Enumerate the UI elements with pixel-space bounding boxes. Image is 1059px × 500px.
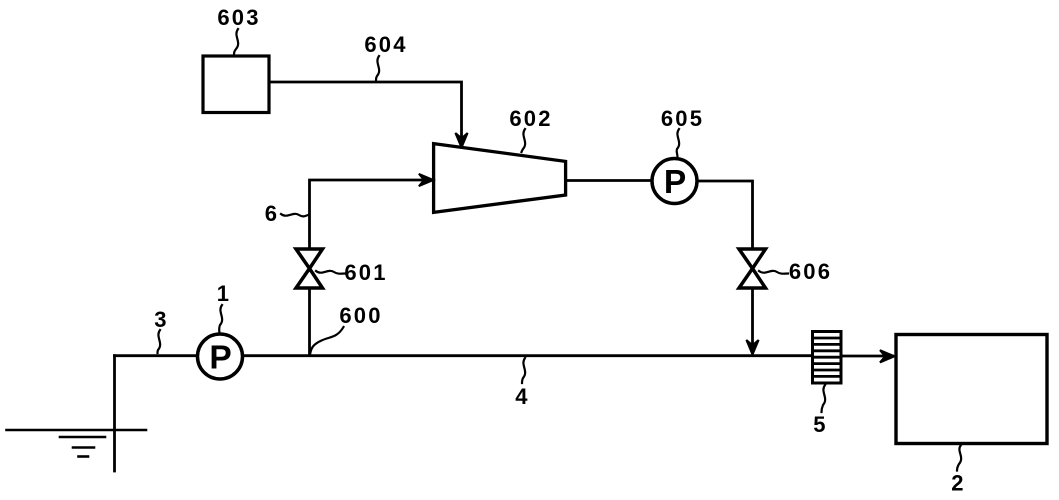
svg-text:602: 602: [509, 106, 552, 131]
leader for 3: [158, 330, 161, 353]
leader for 600: [310, 327, 343, 354]
svg-text:2: 2: [951, 471, 965, 496]
leader for 606: [759, 271, 788, 274]
svg-text:601: 601: [344, 260, 387, 285]
wire gauge 605 to valve 606: [697, 181, 753, 249]
box 603: [203, 56, 269, 113]
valve 601: [296, 249, 323, 288]
svg-text:3: 3: [154, 307, 168, 332]
intake riser (left vertical pipe): [113, 356, 116, 471]
wire 6 (from node 600 up through valve 601 to compressor inlet): [308, 288, 311, 354]
valve 606: [739, 249, 766, 288]
svg-text:606: 606: [789, 259, 832, 284]
wire 604: [269, 82, 462, 146]
filter 5: [813, 332, 842, 384]
svg-text:P: P: [664, 164, 686, 201]
svg-text:603: 603: [217, 5, 260, 30]
svg-text:604: 604: [364, 32, 407, 57]
leader for 605: [677, 129, 679, 157]
wire compressor 602 to gauge 605: [566, 179, 652, 182]
box 2: [896, 335, 1047, 444]
arrowhead main pipe into box 2: [880, 350, 895, 362]
pressure gauge P 605: [652, 159, 697, 204]
main pipe 4: [115, 354, 814, 357]
arrowhead 606 wire into main pipe: [746, 340, 758, 355]
leader for 604: [376, 56, 379, 80]
svg-text:605: 605: [661, 106, 704, 131]
svg-text:P: P: [209, 340, 231, 377]
arrowhead 604 into compressor top: [455, 133, 467, 148]
leader for 4: [522, 358, 525, 383]
arrowhead wire 6 into compressor left: [419, 174, 434, 186]
svg-text:5: 5: [813, 412, 827, 437]
wire valve 606 down to main pipe: [751, 288, 754, 352]
svg-text:600: 600: [339, 303, 382, 328]
leader for 601: [316, 271, 345, 274]
leader for 5: [822, 385, 826, 412]
water surface symbol: [7, 430, 147, 457]
leader for 6: [281, 214, 308, 217]
svg-text:4: 4: [515, 384, 529, 409]
pressure gauge P (1): [198, 334, 243, 379]
leader for 1: [219, 305, 222, 333]
svg-text:1: 1: [217, 281, 231, 306]
leader for 602: [522, 129, 526, 152]
leader for 603: [234, 29, 238, 55]
compressor 602: [434, 144, 566, 213]
svg-text:6: 6: [265, 201, 279, 226]
leader for 2: [957, 445, 961, 471]
